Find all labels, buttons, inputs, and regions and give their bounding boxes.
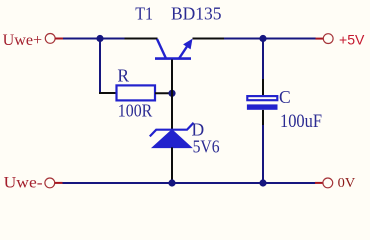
wire top-left rail to node A — [63, 38, 125, 40]
node C junction dot — [259, 35, 266, 42]
svg-text:Uwe+: Uwe+ — [3, 32, 43, 49]
wire emitter lead (black) — [193, 38, 225, 40]
wire red stub from Uwe+ terminal — [55, 38, 63, 40]
wire red stub from Uwe- terminal — [55, 182, 63, 184]
capacitor C bottom plate (filled) — [247, 104, 278, 109]
svg-text:R: R — [117, 65, 129, 85]
zener diode D triangle (anode) — [152, 130, 191, 148]
resistor R1 body — [117, 85, 156, 100]
wire red stub to +5V terminal — [316, 38, 324, 40]
svg-text:0V: 0V — [338, 176, 356, 191]
wire black stub to R left — [99, 92, 117, 94]
transistor Q1 base bar — [155, 57, 191, 60]
wire red stub to 0V terminal — [315, 182, 323, 184]
terminal 0V — [323, 178, 333, 188]
transistor Q1 emitter arrowhead — [183, 39, 192, 50]
wire bottom rail navy — [63, 182, 316, 184]
svg-text:BD135: BD135 — [171, 3, 222, 23]
svg-text:+5V: +5V — [339, 33, 365, 48]
capacitor C top plate (hollow) — [247, 96, 277, 100]
node A junction dot — [96, 35, 103, 42]
wire cap bottom lead black stub — [262, 110, 264, 125]
wire node A down to resistor R — [99, 39, 101, 93]
wire top-right rail navy — [224, 38, 316, 40]
svg-text:100uF: 100uF — [280, 112, 322, 132]
node D junction dot (zener anode) — [168, 179, 175, 186]
terminal Uwe+ — [45, 34, 55, 44]
wire cap bottom lead navy — [262, 125, 264, 183]
node B junction dot — [168, 90, 175, 97]
node E junction dot (cap bottom) — [259, 179, 266, 186]
transistor Q1 collector diagonal — [157, 39, 166, 59]
wire zener anode down (black) — [171, 147, 173, 182]
wire collector lead (black) — [125, 38, 158, 40]
transistor Q1 emitter diagonal — [179, 45, 188, 59]
wire cap top lead black stub — [262, 79, 264, 95]
zener diode D cathode bar with wings — [150, 123, 194, 137]
wire cap top lead navy — [262, 39, 264, 80]
svg-text:T1: T1 — [135, 3, 153, 23]
wire black stub R right to node B — [155, 92, 172, 94]
svg-text:Uwe-: Uwe- — [4, 174, 43, 191]
svg-text:C: C — [279, 87, 291, 107]
terminal Uwe- — [45, 178, 55, 188]
svg-text:100R: 100R — [118, 100, 153, 120]
wire base lead down (black) — [171, 60, 173, 130]
svg-text:5V6: 5V6 — [193, 136, 220, 156]
terminal +5V — [323, 34, 333, 44]
